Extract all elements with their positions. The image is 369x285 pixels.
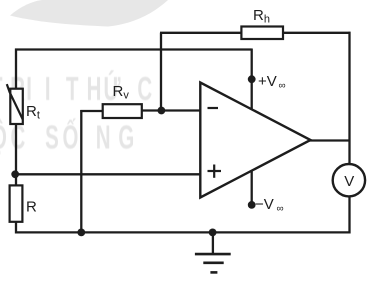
wire left column Rt to R (15, 123, 17, 186)
svg-text:C: C (137, 70, 152, 107)
wire plus-input horizontal (15, 173, 200, 175)
svg-text:Rv: Rv (113, 83, 130, 102)
op-amp U1 (200, 83, 310, 198)
svg-text:I: I (26, 70, 32, 107)
svg-text:S: S (45, 118, 59, 155)
svg-text:V: V (344, 173, 354, 190)
resistor Rh (241, 27, 283, 40)
wire +V vertical stub (251, 49, 253, 110)
wire Rv left lead (80, 110, 103, 112)
svg-text:Rh: Rh (253, 7, 270, 26)
op-amp plus input sign (208, 165, 222, 178)
svg-text:+V: +V (258, 73, 277, 90)
wire bottom ground rail (15, 231, 351, 233)
svg-text:−V: −V (255, 196, 274, 213)
svg-text:R: R (26, 198, 37, 215)
node Rv ground junction (77, 229, 85, 237)
ground (195, 232, 231, 272)
thermistor Rt strike line (7, 84, 23, 119)
node -V supply (248, 201, 256, 209)
op-amp minus input sign (208, 107, 219, 109)
node Rt-R plus input junction (11, 170, 19, 178)
node +V supply (248, 75, 256, 83)
svg-text:Ố: Ố (62, 117, 78, 155)
resistor Rv (103, 104, 142, 118)
wire top to Rh left (160, 32, 242, 34)
wire -V stub (251, 170, 253, 205)
wire Rv left vertical to rail (80, 110, 82, 232)
svg-text:H: H (87, 70, 102, 107)
wire Rv right to op-amp minus input (141, 109, 201, 111)
wire Rh right to right rail (282, 32, 351, 34)
svg-text:T: T (66, 70, 79, 107)
wire voltmeter to bottom rail (348, 195, 350, 234)
svg-text:∞: ∞ (279, 81, 286, 92)
wire +V top horizontal (15, 48, 252, 50)
svg-text:I: I (45, 70, 51, 107)
svg-text:T: T (0, 70, 3, 107)
node ground junction (209, 229, 217, 237)
svg-text:N: N (96, 118, 111, 155)
wire right rail down to voltmeter (348, 32, 350, 165)
svg-text:G: G (118, 118, 134, 155)
node minus input junction (158, 107, 166, 115)
thermistor Rt body (10, 89, 22, 124)
wire left column R to rail (15, 221, 17, 234)
svg-text:Rt: Rt (26, 103, 40, 122)
wire op-amp output (309, 139, 350, 141)
wire minus-node vertical to top (160, 33, 162, 111)
resistor R (10, 185, 23, 221)
wire left column top (15, 49, 17, 90)
svg-text:Ộ: Ộ (0, 118, 7, 155)
svg-text:∞: ∞ (277, 204, 284, 215)
voltmeter V (333, 164, 365, 196)
